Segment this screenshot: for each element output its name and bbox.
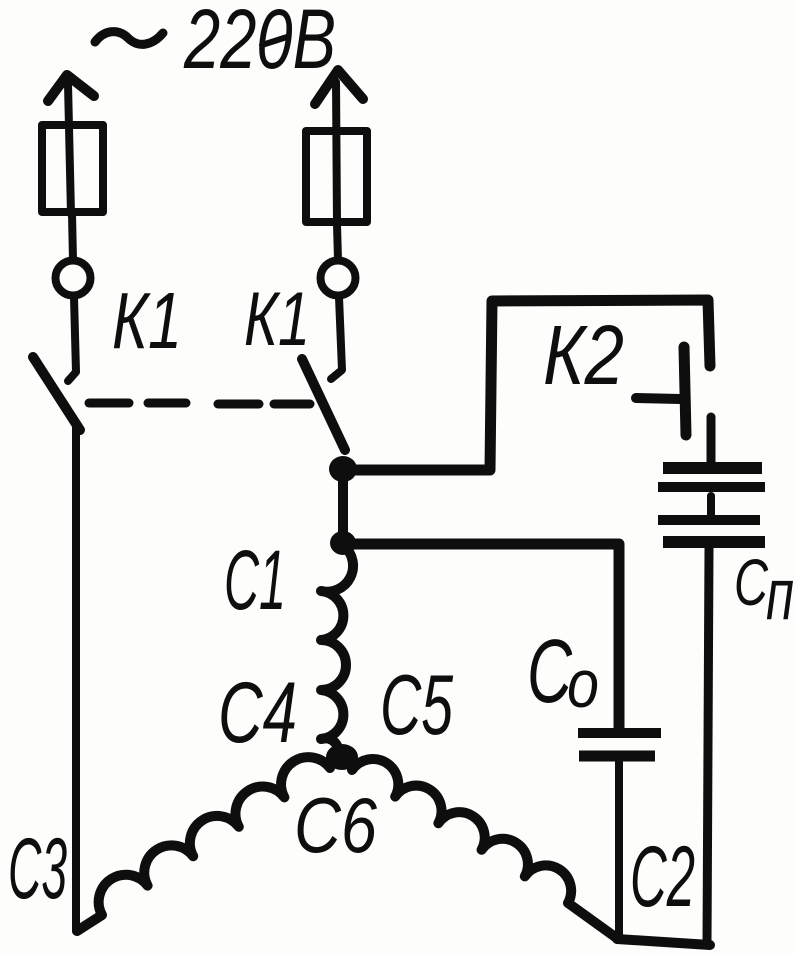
capacitor Cp mid stub [707,496,715,517]
fuse F2 shaft wire [336,82,337,224]
wire bottom right [617,939,710,945]
switch K1 right blade [302,359,345,450]
label Cp [734,545,794,635]
wire K1 to K2 (up and over) [345,300,710,470]
fuse F2 body [306,131,367,222]
switch K2 fixed stub [636,398,680,399]
capacitor Co top plate [578,728,661,738]
svg-text:С3: С3 [8,821,67,917]
svg-text:С4: С4 [218,665,297,761]
svg-text:220В: 220В [183,0,336,86]
wire F1 to contact [72,214,73,260]
svg-text:С2: С2 [630,829,695,925]
svg-text:К1: К1 [112,276,182,365]
svg-text:о: о [567,646,599,722]
label ~220V supply [95,0,336,86]
wire K2 to capacitor Cp [707,417,716,462]
switch K2 blade bar [684,347,686,435]
wire Cp down to bottom [707,548,709,943]
svg-text:С1: С1 [224,533,286,627]
fuse F1 arrow [48,75,94,101]
wire contact stub left [68,297,76,381]
svg-text:п: п [766,555,794,635]
star point junction blob [326,744,358,770]
terminal circle right [321,261,356,296]
wire F2 to contact [337,224,338,260]
winding C1-C4 vertical [321,546,353,757]
capacitor Cp plate 2 [658,482,765,492]
switch K1 left blade [33,357,80,430]
svg-text:С5: С5 [380,658,453,753]
svg-text:С: С [527,622,573,722]
svg-text:С: С [734,545,769,619]
wire junction to Co [352,544,619,729]
winding C3-C6 down-left [77,757,330,931]
capacitor Cp plate 3 [658,515,760,525]
capacitor Cp plate 4 [663,536,765,548]
wire contact stub right [331,297,342,379]
fuse F1 body [42,125,103,212]
winding C2-C5 down-right [352,759,618,939]
junction dot at C1 top [330,531,356,555]
capacitor Cp plate 1 [663,462,762,474]
svg-text:К1: К1 [244,277,310,362]
svg-text:К2: К2 [543,308,624,402]
dashed mechanical link [89,403,310,404]
fuse F1 shaft wire [68,84,71,214]
label Co [527,622,599,722]
fuse F2 arrow [315,70,363,104]
svg-text:С6: С6 [294,781,378,869]
wire left side vertical [72,428,80,931]
junction dot at K1 right output [329,456,357,482]
wire Co down to bottom [615,762,623,938]
terminal circle left [56,261,91,296]
wire junction1 to junction2 [338,476,348,536]
capacitor Co bottom plate [579,751,655,762]
